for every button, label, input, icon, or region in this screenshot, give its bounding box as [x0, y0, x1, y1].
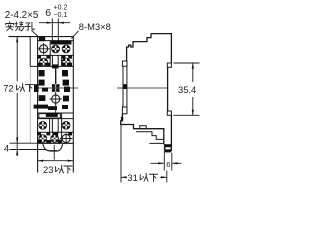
- dim 6 +0.2/-0.1 extension lines: [52, 18, 58, 40]
- dim 35.4 vertical: [192, 63, 194, 115]
- screw S3: [39, 58, 48, 67]
- screw S2: [62, 45, 71, 54]
- dim 72 vertical line: [16, 37, 18, 156]
- screw S5: [39, 121, 48, 130]
- leader to mounting slot: [32, 31, 43, 41]
- bottom center tab arc: [43, 144, 63, 152]
- text anzhuangkong: [6, 22, 34, 31]
- svg-text:72: 72: [3, 82, 13, 93]
- divider squares top block: [37, 55, 72, 58]
- horizontal centerline front: [34, 87, 78, 89]
- text yixia 23: [56, 165, 72, 173]
- mounting hole H1: [37, 43, 49, 54]
- right inner edge: [167, 67, 169, 111]
- bottom center cross: [49, 145, 58, 160]
- svg-text:−0.1: −0.1: [54, 12, 68, 19]
- right notch top: [167, 63, 171, 67]
- bottom terminal block: [38, 113, 74, 143]
- text yixia 31: [140, 173, 157, 181]
- svg-text:4: 4: [4, 143, 9, 154]
- screw S4: [62, 58, 71, 67]
- svg-text:35.4: 35.4: [178, 84, 196, 95]
- right notch bottom: [167, 111, 171, 115]
- center vertical line front: [55, 68, 57, 84]
- dim 4 lines: [10, 143, 47, 149]
- dim 6 foot extension lines: [164, 147, 172, 171]
- screw S8: [50, 134, 59, 143]
- bottom block top bar: [46, 113, 58, 117]
- svg-text:2-4.2×5: 2-4.2×5: [5, 10, 39, 21]
- body left edge / 23-dim left extension: [37, 37, 39, 173]
- svg-text:6: 6: [45, 7, 51, 19]
- screw S7: [39, 134, 48, 143]
- top-right black bar: [51, 41, 72, 45]
- dim 35.4 extension lines: [174, 63, 200, 115]
- dim 6 foot arrows: [151, 162, 182, 164]
- text yixia 72: [17, 84, 34, 92]
- side centerline: [117, 87, 168, 89]
- dim 31 extension lines: [121, 125, 167, 183]
- screw S6: [62, 121, 71, 130]
- center gear symbol: [52, 84, 60, 92]
- body bottom edge: [38, 142, 74, 144]
- svg-text:+0.2: +0.2: [54, 5, 68, 12]
- svg-text:8-M3×8: 8-M3×8: [79, 21, 111, 32]
- side profile top: [127, 34, 172, 63]
- right lower edge: [170, 115, 172, 151]
- bottom marks of top block: [37, 63, 72, 69]
- screw S1: [51, 45, 60, 54]
- svg-text:6: 6: [166, 160, 170, 169]
- shelf steps: [136, 132, 164, 144]
- lip on block top: [140, 126, 146, 129]
- mounting hole H-center: [50, 93, 62, 104]
- step tick: [121, 117, 123, 120]
- leader 8-M3x8: [71, 31, 78, 39]
- lower-left steps: [121, 114, 164, 145]
- column top box: [122, 61, 127, 66]
- foot bars: [164, 144, 172, 147]
- divider squares bottom block: [37, 132, 72, 135]
- body right edge / 23-dim right extension: [72, 37, 74, 173]
- top terminal block boxes: [30, 41, 73, 69]
- dim 6 line with arrows: [39, 22, 70, 24]
- body top edge (merges with 72-dim extension line): [9, 36, 74, 38]
- middle section relay pin slots: [34, 70, 70, 110]
- top mounting slot (black): [39, 37, 45, 42]
- column: [123, 66, 127, 107]
- mounting hole H2: [60, 133, 72, 144]
- dim 31 line with arrows: [121, 176, 167, 178]
- svg-text:31: 31: [127, 172, 137, 183]
- column bottom box: [122, 107, 127, 114]
- dim 23 line with arrows: [38, 160, 74, 162]
- column black tip: [123, 84, 127, 89]
- bottom marks of bottom block: [38, 140, 62, 144]
- left flange edge (dark top, faint below): [29, 37, 31, 67]
- svg-text:23: 23: [43, 164, 53, 175]
- text 31 with bg: [127, 171, 160, 183]
